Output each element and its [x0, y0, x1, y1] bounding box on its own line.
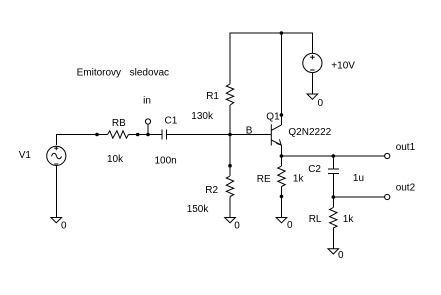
wire RL to ground — [332, 228, 334, 249]
resistor RL — [330, 208, 337, 229]
wire RL top — [332, 197, 334, 208]
wire RB to C1 — [129, 134, 162, 136]
svg-text:0: 0 — [318, 98, 324, 109]
svg-text:0: 0 — [61, 221, 67, 232]
wire Q1 emitter to out1 rail — [281, 145, 384, 156]
svg-text:R1: R1 — [206, 91, 219, 102]
svg-text:C2: C2 — [308, 164, 321, 175]
svg-text:100n: 100n — [155, 156, 177, 167]
wire V1 top to RB — [57, 135, 108, 146]
capacitor C2 — [328, 169, 339, 174]
svg-text:1k: 1k — [293, 174, 305, 185]
svg-text:0: 0 — [287, 220, 293, 231]
svg-text:Emitorovy: Emitorovy — [77, 68, 121, 79]
svg-text:V1: V1 — [19, 150, 32, 161]
svg-text:1u: 1u — [353, 173, 364, 184]
resistor RE — [278, 166, 285, 187]
source V1 — [47, 146, 66, 165]
ground +10V — [307, 94, 318, 99]
svg-text:R2: R2 — [205, 185, 218, 196]
svg-text:in: in — [143, 96, 151, 107]
top rail wire — [230, 33, 312, 84]
node in stub — [147, 124, 149, 134]
svg-text:Q1: Q1 — [266, 112, 280, 123]
resistor R1 — [226, 84, 233, 105]
wire node B to R2 — [229, 135, 231, 177]
junction emitter out1 — [280, 154, 284, 158]
svg-text:RE: RE — [257, 174, 271, 185]
svg-text:RL: RL — [309, 214, 322, 225]
resistor R2 — [226, 176, 233, 197]
pin circle in — [145, 119, 150, 124]
svg-text:RB: RB — [112, 118, 126, 129]
svg-text:0: 0 — [338, 250, 344, 261]
junction RE bottom — [280, 195, 284, 199]
junction RB left — [95, 133, 99, 137]
svg-text:150k: 150k — [187, 204, 210, 215]
wire +10V to ground — [311, 73, 313, 94]
pin circle out2 — [385, 194, 390, 199]
svg-text:sledovac: sledovac — [130, 68, 169, 79]
wire C1 to Q1 base — [167, 134, 271, 136]
ground R2 — [225, 218, 236, 223]
junction collector pin — [280, 113, 284, 117]
resistor RB — [108, 131, 129, 138]
junction C2 bottom — [332, 195, 336, 199]
pin circle out1 — [385, 153, 390, 158]
wire V1 to ground — [55, 166, 57, 218]
wire R1 to node B — [229, 105, 231, 135]
transistor Q1 — [271, 124, 281, 145]
junction RB right — [136, 133, 140, 137]
junction collector rail — [280, 31, 284, 35]
svg-text:1k: 1k — [343, 214, 355, 225]
svg-text:out1: out1 — [396, 142, 416, 153]
wire C2 to out2 rail — [333, 174, 384, 198]
wire R2 to ground — [229, 197, 231, 218]
svg-text:+10V: +10V — [331, 61, 355, 72]
junction C2 top — [332, 154, 336, 158]
junction in node — [146, 133, 150, 137]
ground RL — [328, 249, 339, 254]
svg-text:C1: C1 — [165, 116, 178, 127]
svg-text:0: 0 — [234, 221, 240, 232]
capacitor C1 — [162, 130, 167, 140]
svg-text:B: B — [246, 126, 253, 137]
wire RE top — [281, 156, 283, 166]
ground RE — [276, 218, 287, 223]
svg-text:10k: 10k — [107, 154, 124, 165]
source +10V — [303, 53, 322, 72]
junction R2 top — [228, 164, 232, 168]
ground V1 — [51, 218, 62, 223]
wire C2 top stub — [332, 156, 334, 169]
svg-text:out2: out2 — [396, 183, 416, 194]
svg-text:Q2N2222: Q2N2222 — [288, 127, 331, 138]
wire Q1 collector to rail — [280, 33, 282, 125]
wire RE to ground — [281, 187, 283, 218]
svg-text:130k: 130k — [191, 111, 214, 122]
junction node B — [228, 133, 232, 137]
